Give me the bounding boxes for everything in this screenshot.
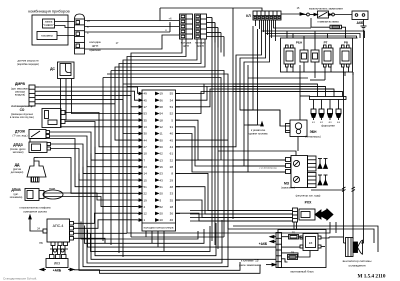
svg-text:коленвала): коленвала) bbox=[10, 196, 23, 199]
svg-text:21: 21 bbox=[160, 185, 164, 189]
wires ECU right side routing bbox=[123, 84, 344, 221]
svg-text:к выключателю плафона: к выключателю плафона bbox=[20, 206, 51, 210]
svg-text:реле зажигания: реле зажигания bbox=[239, 263, 261, 267]
wire fuel pump feed bbox=[300, 95, 310, 97]
svg-text:48: 48 bbox=[170, 185, 174, 189]
injector Ф4 bbox=[336, 100, 341, 121]
fuse F3 mounting block bbox=[288, 255, 298, 260]
wire top bus to КЛ bbox=[160, 8, 262, 11]
svg-text:10: 10 bbox=[160, 218, 164, 222]
label колодка ЖГП красная bbox=[89, 40, 100, 52]
wires mounting block internal bbox=[282, 237, 344, 262]
relay block outer box bbox=[281, 38, 353, 72]
svg-text:62: 62 bbox=[160, 152, 164, 156]
svg-text:44: 44 bbox=[144, 138, 148, 142]
injector rail bbox=[310, 97, 347, 100]
bottom nested bus wires bbox=[74, 147, 378, 273]
battery АКБ bbox=[352, 11, 368, 26]
connector КЛ diagnostic bbox=[253, 11, 281, 20]
svg-text:АПС-4: АПС-4 bbox=[53, 224, 64, 228]
wire ЭБН to МЗ vertical bbox=[297, 137, 299, 152]
svg-text:35: 35 bbox=[170, 198, 174, 202]
wires sensors to ECU left bbox=[34, 87, 138, 243]
svg-text:СО: СО bbox=[20, 108, 25, 112]
svg-text:45: 45 bbox=[144, 98, 148, 102]
svg-text:30: 30 bbox=[144, 132, 148, 136]
immobilizer АПС-4 bbox=[43, 219, 74, 246]
label МЗ bbox=[281, 182, 295, 190]
crankshaft sensor ДПКВ bbox=[25, 189, 44, 201]
idle regulator РХХ label bbox=[296, 195, 321, 205]
indicator ИКЗ bbox=[46, 255, 68, 268]
svg-text:62: 62 bbox=[160, 205, 164, 209]
svg-text:МЗ: МЗ bbox=[284, 182, 289, 186]
svg-text:+б: +б bbox=[168, 17, 172, 21]
connector X2 колодка ЖГП bbox=[180, 14, 193, 39]
label колодка ЖГП bbox=[181, 41, 192, 49]
injector numbering bbox=[312, 121, 341, 124]
wires КЛ down bbox=[256, 20, 276, 41]
wire X3 out rows bbox=[207, 18, 225, 57]
relay РТ bbox=[322, 45, 333, 67]
label колодка ЖСП bbox=[195, 41, 206, 49]
fan motor вентилятор bbox=[344, 237, 363, 257]
svg-text:51: 51 bbox=[144, 185, 148, 189]
wire X1 out b bbox=[85, 17, 180, 21]
spark plugs cyl 1-4 bbox=[318, 159, 328, 186]
svg-text:колодка контроллера: колодка контроллера bbox=[144, 226, 174, 230]
wire X1 out o bbox=[85, 22, 171, 32]
svg-text:20: 20 bbox=[160, 145, 164, 149]
svg-text:12: 12 bbox=[160, 125, 164, 129]
svg-text:61: 61 bbox=[170, 152, 174, 156]
svg-text:27: 27 bbox=[144, 145, 148, 149]
label +АКБ under ИКЗ bbox=[40, 268, 74, 272]
svg-text:РХХ: РХХ bbox=[305, 201, 312, 205]
svg-text:46: 46 bbox=[170, 218, 174, 222]
svg-text:вентилятор системы: вентилятор системы bbox=[343, 259, 372, 263]
svg-text:(регулятор хол. хода): (регулятор хол. хода) bbox=[296, 195, 321, 198]
knock sensor ДД bbox=[27, 158, 46, 183]
relay КЗ mounting block bbox=[300, 234, 321, 251]
svg-text:20: 20 bbox=[160, 192, 164, 196]
wire X1 out bottom bbox=[85, 35, 180, 49]
svg-text:КЗ: КЗ bbox=[309, 241, 313, 245]
svg-text:ИКЗ: ИКЗ bbox=[54, 262, 60, 266]
svg-text:36: 36 bbox=[170, 212, 174, 216]
injector Ф2 bbox=[319, 100, 324, 121]
svg-text:ДПДЗ: ДПДЗ bbox=[13, 143, 22, 147]
svg-text:КЛ: КЛ bbox=[246, 14, 251, 18]
svg-text:53: 53 bbox=[144, 112, 148, 116]
wires ECU bottom pins bbox=[146, 231, 164, 251]
connector break symbols fan wires bbox=[342, 187, 355, 192]
shielded pair ДПКВ bbox=[43, 188, 75, 200]
wire tachometer to X1 bbox=[57, 35, 75, 37]
svg-text:55: 55 bbox=[170, 92, 174, 96]
svg-text:33: 33 bbox=[170, 192, 174, 196]
wires АПС-4 to ИКЗ bbox=[50, 246, 68, 255]
idle regulator РХХ bbox=[293, 208, 334, 230]
coolant temp sensor ДТОЖ label bbox=[13, 130, 28, 138]
svg-text:34: 34 bbox=[170, 98, 174, 102]
svg-text:13: 13 bbox=[160, 158, 164, 162]
svg-text:53: 53 bbox=[170, 105, 174, 109]
svg-text:18: 18 bbox=[170, 205, 174, 209]
wire battery feed down right bbox=[345, 37, 358, 39]
svg-text:30: 30 bbox=[160, 138, 164, 142]
ECU right side stubs bbox=[176, 94, 181, 214]
svg-text:ЖСП: ЖСП bbox=[197, 44, 204, 48]
wire bus top horizontal group bbox=[61, 39, 229, 160]
svg-text:ДД: ДД bbox=[15, 163, 20, 167]
CO potentiometer bbox=[42, 109, 65, 128]
svg-text:ПБ: ПБ bbox=[39, 242, 43, 245]
wires injectors control up bbox=[233, 84, 343, 97]
svg-text:12: 12 bbox=[144, 212, 148, 216]
svg-text:14: 14 bbox=[144, 172, 148, 176]
svg-text:23: 23 bbox=[144, 165, 148, 169]
instrument cluster (комбинация приборов) bbox=[28, 9, 69, 46]
relay РБН bbox=[284, 45, 295, 67]
svg-text:17: 17 bbox=[144, 105, 148, 109]
svg-text:54: 54 bbox=[160, 112, 164, 116]
speed sensor ДС bbox=[50, 62, 74, 85]
svg-text:экран: экран bbox=[49, 188, 56, 191]
throttle position sensor ДПДЗ label bbox=[10, 143, 26, 154]
ignition module МЗ bbox=[286, 156, 308, 188]
svg-text:ДТОЖ: ДТОЖ bbox=[15, 130, 26, 134]
svg-text:29: 29 bbox=[170, 178, 174, 182]
throttle position sensor ДПДЗ bbox=[29, 139, 51, 153]
wire vertical bundle left of ECU bbox=[103, 71, 131, 258]
label plafond switch bbox=[20, 206, 51, 214]
wires to fuel level indicator bbox=[244, 122, 278, 170]
svg-text:воздуха): воздуха) bbox=[15, 94, 25, 97]
svg-text:уровня топлива: уровня топлива bbox=[249, 133, 268, 136]
svg-text:35: 35 bbox=[144, 118, 148, 122]
wires РХХ bbox=[190, 211, 293, 222]
svg-text:РБН: РБН bbox=[296, 41, 302, 45]
svg-text:18: 18 bbox=[160, 118, 164, 122]
svg-text:15: 15 bbox=[144, 178, 148, 182]
wires relay block bottom bbox=[287, 65, 353, 237]
svg-text:43: 43 bbox=[160, 178, 164, 182]
ДМРВ pins bbox=[35, 87, 39, 104]
svg-text:форсунки: форсунки bbox=[321, 124, 335, 128]
fuse плавкая вставка bbox=[311, 18, 346, 38]
mass airflow sensor ДМРВ connector bbox=[29, 85, 35, 106]
svg-text:выключатель зажигания: выключатель зажигания bbox=[309, 7, 343, 11]
ignition switch выключатель зажигания bbox=[300, 7, 352, 19]
wire X1 out plus-b bbox=[85, 23, 180, 27]
wires to МЗ from harness bbox=[233, 160, 286, 172]
svg-text:датчик скорости: датчик скорости bbox=[18, 59, 39, 63]
mass airflow sensor ДМРВ label bbox=[11, 82, 29, 97]
connector МЗ high voltage 1 bbox=[308, 156, 317, 171]
wires mounting block to left +АКБ bbox=[259, 235, 276, 246]
svg-text:28: 28 bbox=[170, 165, 174, 169]
svg-text:31: 31 bbox=[170, 125, 174, 129]
wires relay block top bbox=[304, 38, 315, 47]
svg-text:ЭБН: ЭБН bbox=[310, 130, 318, 134]
svg-text:36: 36 bbox=[160, 98, 164, 102]
svg-text:10: 10 bbox=[144, 152, 148, 156]
svg-text:45: 45 bbox=[170, 138, 174, 142]
svg-text:М 1.5.4 2110: М 1.5.4 2110 bbox=[358, 274, 386, 280]
svg-text:+АКБ: +АКБ bbox=[53, 269, 62, 273]
wire КЛ to marshrut computer bbox=[281, 7, 304, 15]
fuse F1 mounting block bbox=[289, 235, 299, 240]
svg-text:22: 22 bbox=[144, 192, 148, 196]
svg-text:52: 52 bbox=[170, 112, 174, 116]
svg-text:(коробка передач): (коробка передач) bbox=[17, 62, 39, 66]
svg-text:в салоне или под пан.): в салоне или под пан.) bbox=[10, 117, 35, 119]
svg-text:13: 13 bbox=[144, 125, 148, 129]
svg-text:Стандартверсия Sd-soft.: Стандартверсия Sd-soft. bbox=[3, 277, 37, 281]
svg-text:ДС: ДС bbox=[50, 67, 55, 71]
svg-text:16: 16 bbox=[160, 165, 164, 169]
svg-text:(бензонасос): (бензонасос) bbox=[305, 135, 321, 139]
wire АПС-4 to plafond bbox=[29, 215, 43, 231]
wire cluster lamp to X1 bbox=[55, 21, 75, 23]
fuel pump ЭБН bbox=[286, 120, 308, 137]
injector Ф1 bbox=[311, 100, 316, 121]
svg-text:ДПКВ: ДПКВ bbox=[11, 188, 21, 192]
crankshaft sensor ДПКВ label bbox=[10, 188, 23, 199]
svg-text:19: 19 bbox=[144, 198, 148, 202]
label ЭБН bbox=[305, 130, 321, 139]
mounting block монтажный блок bbox=[278, 230, 326, 268]
fuse F1 in relay block bbox=[300, 47, 308, 65]
svg-text:охлаждения: охлаждения bbox=[349, 264, 366, 268]
svg-text:заслонки): заслонки) bbox=[13, 151, 24, 154]
svg-text:+АКБ: +АКБ bbox=[259, 242, 268, 246]
knock sensor ДД label bbox=[11, 163, 24, 174]
svg-text:монтажный блок: монтажный блок bbox=[290, 270, 314, 274]
fuse F2 in relay block bbox=[311, 47, 319, 65]
svg-text:(размещен отдельно: (размещен отдельно bbox=[11, 114, 34, 116]
coolant temp sensor ДТОЖ bbox=[29, 130, 50, 139]
svg-text:11: 11 bbox=[160, 132, 163, 136]
connector ladder mounting block bbox=[276, 233, 282, 268]
wire battery feed long vertical bbox=[361, 30, 364, 243]
wire to klemma 15 bbox=[239, 259, 276, 268]
ECU pins bbox=[138, 92, 174, 223]
svg-text:32: 32 bbox=[170, 158, 174, 162]
wire cluster lamp2 to X1 bbox=[55, 26, 75, 28]
svg-text:23: 23 bbox=[160, 172, 164, 176]
svg-text:19: 19 bbox=[160, 92, 164, 96]
svg-text:комбинация приборов: комбинация приборов bbox=[28, 9, 69, 14]
svg-text:АКБ: АКБ bbox=[357, 21, 365, 25]
svg-text:(зажигания): (зажигания) bbox=[281, 187, 295, 190]
svg-text:20: 20 bbox=[160, 212, 164, 216]
svg-text:плавкая вставка: плавкая вставка bbox=[317, 20, 339, 24]
wire fuel pump ground bbox=[240, 110, 286, 126]
svg-text:освещения салона: освещения салона bbox=[23, 211, 47, 214]
svg-text:"CHECK": "CHECK" bbox=[43, 23, 54, 27]
wire vertical bundle right of ECU bbox=[212, 8, 233, 249]
svg-text:тахометр: тахометр bbox=[41, 34, 53, 38]
label вентилятор системы охлаждения bbox=[343, 259, 372, 268]
svg-text:детонации): детонации) bbox=[11, 171, 24, 174]
svg-text:28: 28 bbox=[160, 105, 164, 109]
connector X3 колодка ЖСП bbox=[195, 14, 207, 39]
svg-text:44: 44 bbox=[170, 145, 174, 149]
svg-text:РТ: РТ bbox=[324, 41, 328, 45]
injector Ф3 bbox=[328, 100, 333, 121]
svg-text:к эл.бензонасосу: к эл.бензонасосу bbox=[259, 168, 277, 170]
CO potentiometer label bbox=[10, 104, 35, 119]
connector X1 колодка ЖГП красная bbox=[75, 14, 91, 54]
svg-text:ДМРВ: ДМРВ bbox=[15, 82, 26, 86]
svg-text:40: 40 bbox=[170, 132, 174, 136]
svg-text:(Т° охл. жид.): (Т° охл. жид.) bbox=[13, 135, 28, 138]
wires middle right area bbox=[215, 20, 365, 172]
ECU controller box bbox=[142, 90, 176, 231]
relay РВ bbox=[340, 45, 351, 67]
svg-text:49: 49 bbox=[144, 92, 148, 96]
connector МЗ high voltage 2 bbox=[308, 173, 317, 188]
ground from battery bbox=[361, 26, 367, 29]
speed sensor ДС label bbox=[17, 59, 39, 67]
